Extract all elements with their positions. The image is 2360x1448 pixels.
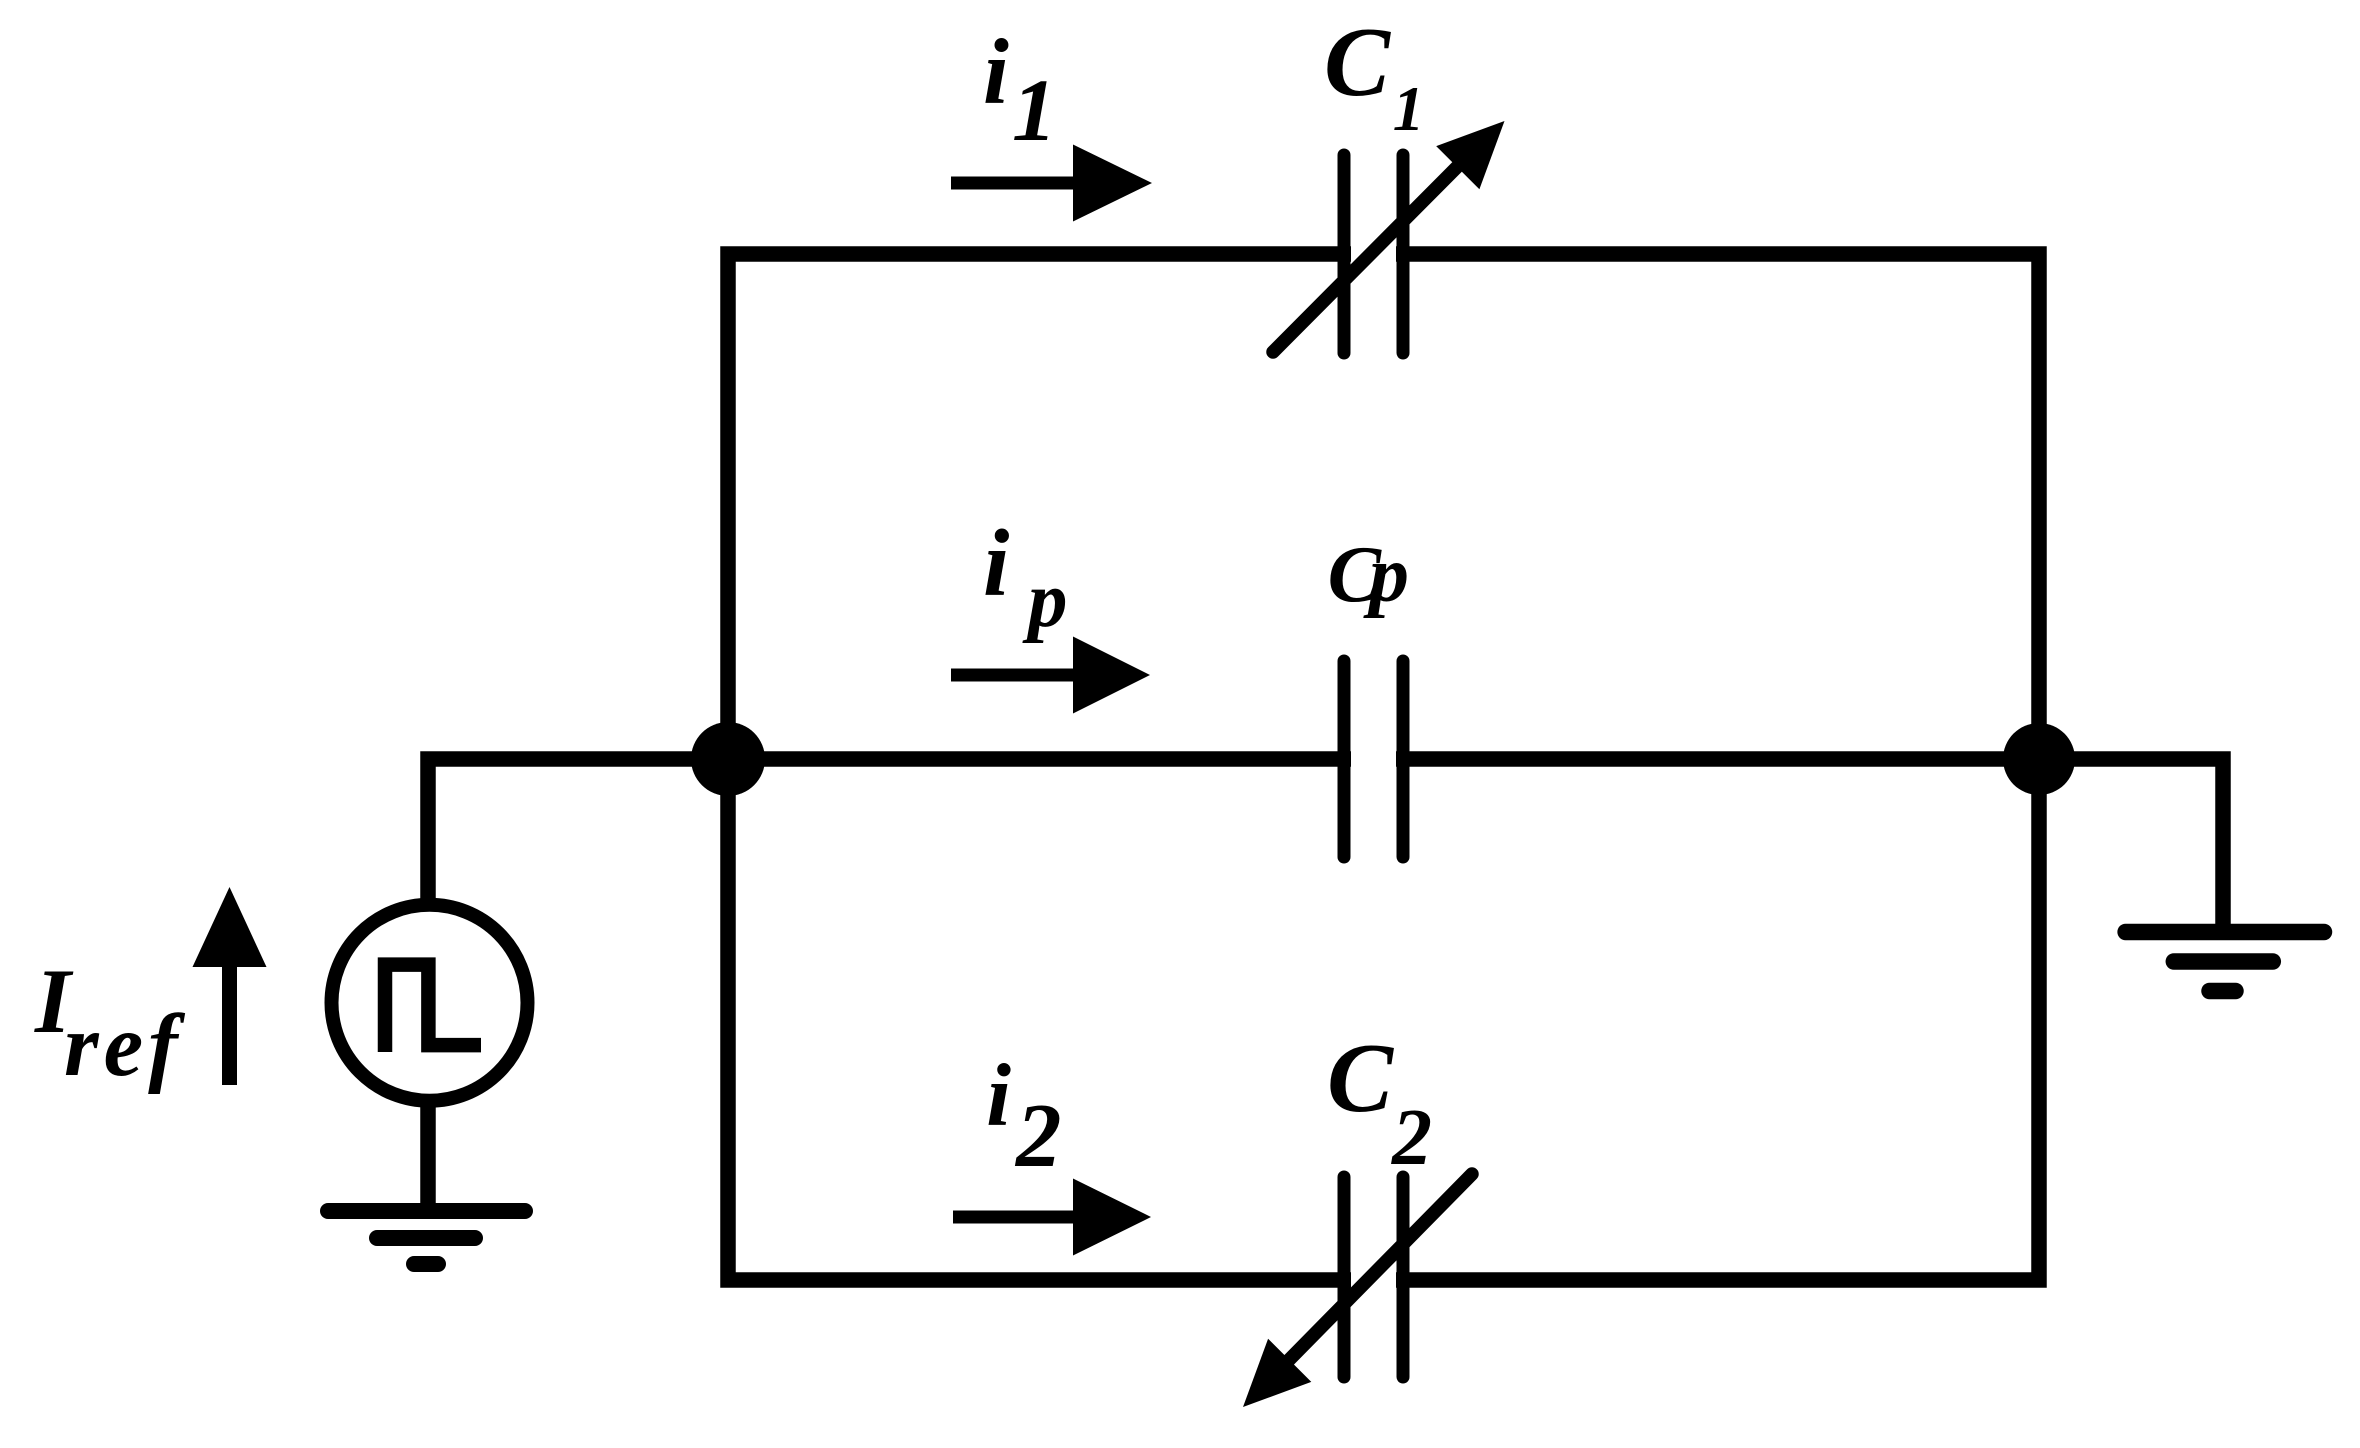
gap mask for capacitor C2 bbox=[1351, 1271, 1396, 1290]
svg-text:i: i bbox=[986, 1047, 1011, 1145]
svg-text:i: i bbox=[983, 21, 1009, 124]
current arrow ip bbox=[951, 637, 1150, 714]
current source Iref circle bbox=[332, 905, 528, 1101]
svg-text:1: 1 bbox=[1393, 74, 1425, 144]
capacitor C1 plates bbox=[1344, 155, 1403, 353]
current source pulse symbol bbox=[385, 965, 481, 1052]
svg-text:2: 2 bbox=[1014, 1085, 1062, 1186]
node A: left junction dot bbox=[691, 722, 765, 796]
svg-text:i: i bbox=[983, 510, 1009, 616]
label C1 bbox=[1324, 8, 1424, 144]
svg-text:p: p bbox=[1022, 557, 1068, 644]
gap mask for capacitor Cp bbox=[1351, 750, 1396, 769]
capacitor C2 variable arrow bbox=[1243, 1174, 1472, 1407]
wire: outer loop rectangle (top branch, left rail, right rail, bottom branch) bbox=[728, 254, 2039, 1280]
capacitor C2 plates bbox=[1344, 1177, 1403, 1377]
svg-text:C: C bbox=[1324, 8, 1391, 117]
current arrow Iref (up) bbox=[193, 887, 267, 1085]
label C2 bbox=[1327, 1024, 1432, 1182]
ground (right) bbox=[2126, 932, 2324, 991]
svg-text:C: C bbox=[1327, 1024, 1394, 1133]
wire: right node to ground corner bbox=[2039, 759, 2223, 934]
label ip bbox=[983, 510, 1068, 644]
svg-text:1: 1 bbox=[1012, 62, 1057, 160]
svg-text:ref: ref bbox=[64, 997, 186, 1095]
wire: middle branch from source corner through node to right node bbox=[428, 759, 2039, 900]
label i1 bbox=[983, 21, 1057, 160]
ground (left, below source) bbox=[328, 1211, 525, 1264]
label Iref bbox=[34, 950, 186, 1095]
node B: right junction dot bbox=[2003, 723, 2075, 795]
capacitor C1 variable arrow bbox=[1273, 121, 1505, 352]
capacitor Cp plates bbox=[1344, 661, 1403, 857]
current arrow i2 bbox=[953, 1179, 1151, 1256]
gap mask for capacitor C1 bbox=[1351, 244, 1396, 263]
current arrow i1 bbox=[951, 145, 1152, 222]
svg-text:Cp: Cp bbox=[1328, 531, 1407, 619]
label i2 bbox=[986, 1047, 1061, 1186]
svg-text:2: 2 bbox=[1391, 1094, 1432, 1182]
wire: source bottom to left ground bbox=[420, 1100, 436, 1211]
